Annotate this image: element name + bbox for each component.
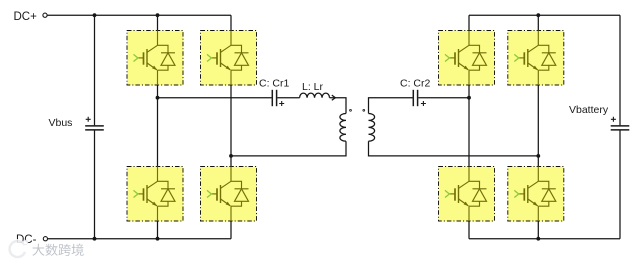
transistor Q1	[127, 31, 183, 86]
transistor Q3	[127, 167, 183, 222]
transistor Q8	[508, 167, 564, 222]
svg-text:C: Cr1: C: Cr1	[259, 78, 289, 90]
capacitor Vbus	[85, 117, 104, 130]
junction bottom rail at leg4	[536, 237, 540, 241]
wire Cr2 to leg3 midpoint	[418, 97, 469, 99]
junction bottom rail at leg1	[156, 237, 160, 241]
svg-text:L: Lr: L: Lr	[302, 81, 324, 93]
svg-text:DC+: DC+	[14, 11, 38, 23]
inductor Lr	[300, 93, 336, 100]
junction leg4 midpoint	[536, 154, 540, 158]
capacitor Vbattery	[611, 117, 630, 130]
capacitor Cr1	[272, 90, 284, 106]
transistor Q5	[439, 31, 495, 86]
svg-text:Vbus: Vbus	[49, 117, 73, 129]
junction top rail at leg1	[156, 13, 160, 17]
transistor Q2	[201, 31, 257, 86]
transformer T1	[340, 109, 375, 141]
wire top-right rail	[469, 14, 620, 16]
wire transformer primary bottom to leg2	[231, 141, 346, 156]
wire transformer secondary top to Cr2	[369, 98, 413, 114]
wire leg1 midpoint to Cr1	[158, 97, 272, 99]
junction leg3 midpoint	[467, 96, 471, 100]
terminal DC-	[43, 237, 47, 241]
terminal DC+	[43, 13, 47, 17]
wire top-left rail	[45, 14, 231, 16]
wire leg 1	[157, 15, 159, 239]
wire leg 4	[537, 15, 539, 239]
wire right bus vertical	[619, 15, 621, 239]
junction top rail at leg4	[536, 13, 540, 17]
wire left bus vertical	[94, 15, 96, 239]
junction leg2 midpoint	[229, 154, 233, 158]
wire transformer secondary bottom to leg4	[369, 141, 539, 156]
watermark logo	[9, 240, 28, 258]
wire bottom-right rail	[469, 238, 620, 240]
wire Lr to transformer primary top	[330, 98, 347, 114]
watermark text	[32, 244, 83, 256]
transistor Q4	[201, 167, 257, 222]
svg-text:Vbattery: Vbattery	[569, 104, 609, 116]
wire bottom-left rail	[45, 238, 231, 240]
wire Cr1 to Lr	[277, 97, 299, 99]
wire leg 3	[468, 15, 470, 239]
junction bottom rail at Vbus	[93, 237, 97, 241]
capacitor Cr2	[413, 90, 426, 106]
wire leg 2	[230, 15, 232, 239]
transistor Q6	[508, 31, 564, 86]
svg-text:C: Cr2: C: Cr2	[400, 78, 430, 90]
transistor Q7	[439, 167, 495, 222]
junction leg1 midpoint	[156, 96, 160, 100]
junction top rail at Vbus	[93, 13, 97, 17]
